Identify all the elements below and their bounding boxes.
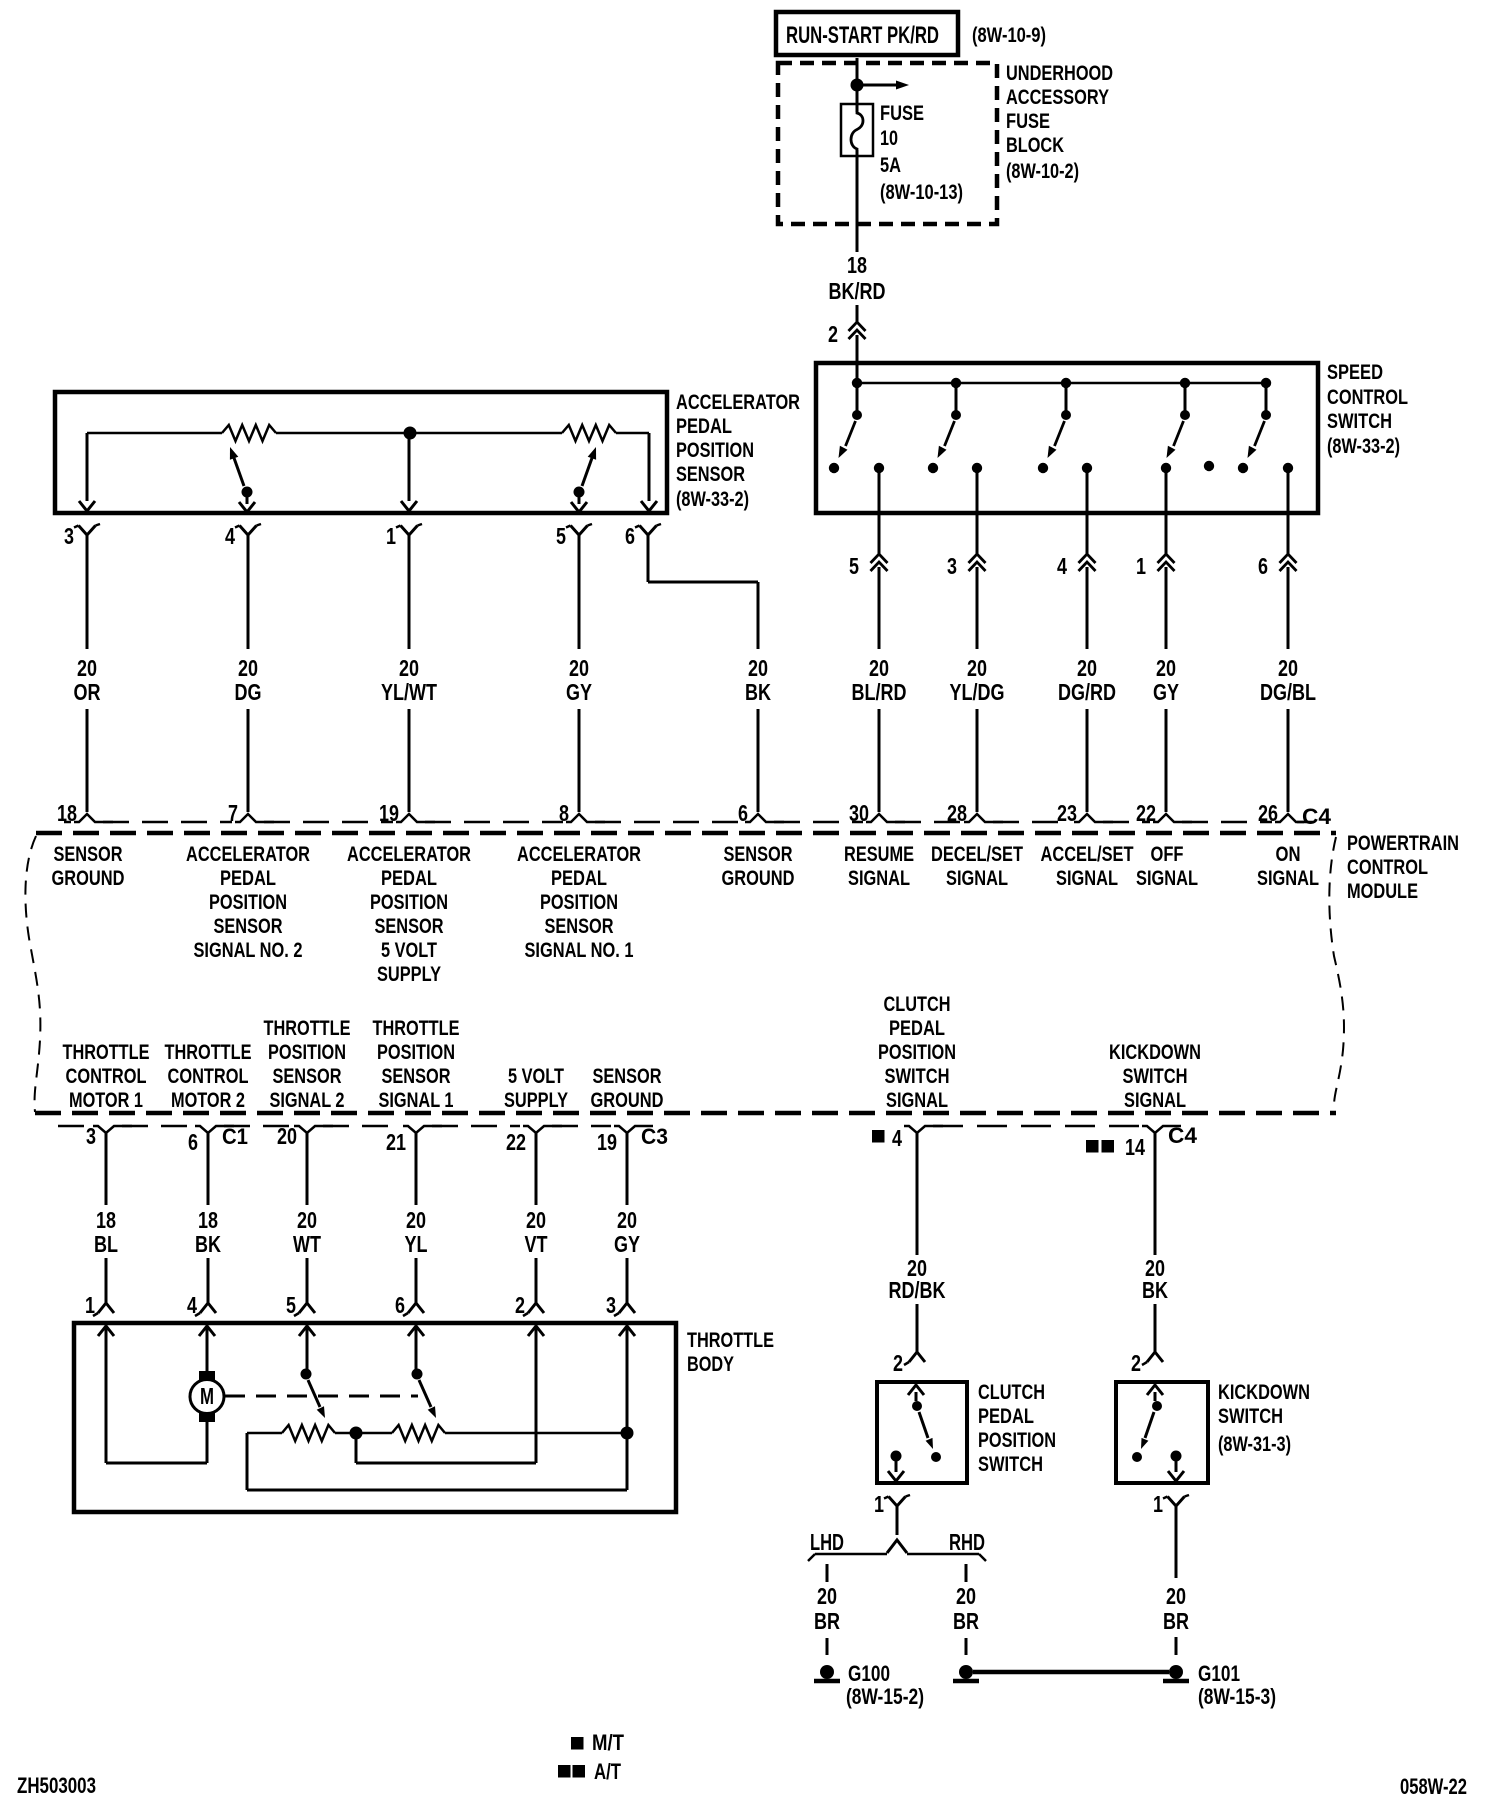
svg-text:6: 6 — [188, 1129, 198, 1155]
svg-text:THROTTLE: THROTTLE — [373, 1017, 460, 1040]
speed control switch pole 3 — [1038, 383, 1092, 473]
svg-text:2: 2 — [1131, 1350, 1141, 1376]
svg-text:PEDAL: PEDAL — [889, 1017, 945, 1040]
svg-text:1: 1 — [85, 1292, 95, 1318]
svg-text:C3: C3 — [641, 1124, 668, 1149]
svg-text:SENSOR: SENSOR — [545, 915, 614, 938]
pcm pin 3 — [86, 1123, 132, 1149]
wire — [206, 1421, 209, 1463]
wire — [1165, 567, 1168, 649]
svg-text:2: 2 — [828, 321, 838, 347]
wire — [1287, 468, 1290, 554]
svg-text:POWERTRAIN: POWERTRAIN — [1347, 832, 1459, 855]
clutch switch pin 1 — [874, 1491, 910, 1517]
pcm signal label 5 VOLT SUPPLY — [504, 1065, 568, 1112]
wire — [856, 335, 859, 385]
ground G100 — [814, 1665, 840, 1681]
node junction — [852, 378, 862, 388]
svg-text:CONTROL: CONTROL — [66, 1065, 147, 1088]
svg-text:ACCELERATOR: ACCELERATOR — [676, 391, 800, 414]
svg-text:18: 18 — [198, 1207, 218, 1233]
throttle body box — [74, 1323, 676, 1512]
speed control switch pole 4 — [1161, 383, 1214, 473]
svg-text:SIGNAL: SIGNAL — [1124, 1089, 1186, 1112]
svg-text:SWITCH: SWITCH — [978, 1453, 1043, 1476]
svg-text:(8W-33-2): (8W-33-2) — [1327, 435, 1400, 458]
pcm signal label RESUME SIGNAL — [844, 843, 914, 890]
svg-text:SUPPLY: SUPPLY — [377, 963, 441, 986]
wire — [1287, 567, 1290, 649]
svg-text:7: 7 — [228, 800, 238, 826]
label FUSE 10 5A (8W-10-13) — [880, 102, 963, 204]
speed control switch pole 1 — [829, 383, 884, 473]
svg-text:BL: BL — [94, 1231, 118, 1257]
wire — [826, 1638, 829, 1655]
throttle body pin 6 — [395, 1292, 424, 1318]
wire — [965, 1638, 968, 1655]
svg-text:3: 3 — [947, 553, 957, 579]
wire — [976, 567, 979, 649]
wire — [856, 305, 859, 322]
svg-text:4: 4 — [225, 523, 235, 549]
svg-text:4: 4 — [187, 1292, 197, 1318]
label SPEED CONTROL SWITCH (8W-33-2) — [1327, 361, 1408, 458]
pcm pin 22 — [1136, 800, 1192, 826]
svg-text:MOTOR 1: MOTOR 1 — [69, 1089, 143, 1112]
wire — [408, 709, 411, 812]
wire — [1086, 468, 1089, 554]
svg-text:20: 20 — [526, 1207, 546, 1233]
label KICKDOWN SWITCH (8W-31-3) — [1218, 1381, 1310, 1456]
pcm signal label THROTTLE POSITION SENSOR SIGNAL 2 — [264, 1017, 351, 1112]
svg-text:DG/RD: DG/RD — [1058, 679, 1116, 705]
svg-text:THROTTLE: THROTTLE — [63, 1041, 150, 1064]
wire — [415, 1132, 418, 1205]
svg-text:22: 22 — [1136, 800, 1156, 826]
wire — [916, 1304, 919, 1352]
svg-text:20: 20 — [406, 1207, 426, 1233]
wire — [1165, 709, 1168, 812]
wire label 18 BK/RD — [829, 252, 886, 304]
svg-text:PEDAL: PEDAL — [551, 867, 607, 890]
wire — [206, 1326, 209, 1372]
svg-text:SUPPLY: SUPPLY — [504, 1089, 568, 1112]
svg-text:26: 26 — [1258, 800, 1278, 826]
resistor R2 — [562, 425, 616, 441]
connector label C1 — [222, 1124, 248, 1149]
svg-text:ZH503003: ZH503003 — [17, 1773, 96, 1798]
wire label 20 BK — [1142, 1255, 1168, 1303]
throttle body pin 5 — [286, 1292, 315, 1318]
connector pin 3 — [947, 553, 986, 579]
wire entry arrow — [408, 1326, 424, 1336]
wire — [106, 1326, 207, 1463]
svg-text:ACCELERATOR: ACCELERATOR — [186, 843, 310, 866]
wire label 20 GY — [614, 1207, 640, 1257]
accelerator pedal position sensor box — [55, 392, 667, 513]
node junction — [1061, 378, 1071, 388]
svg-text:UNDERHOOD: UNDERHOOD — [1006, 62, 1113, 85]
svg-text:(8W-15-3): (8W-15-3) — [1198, 1684, 1276, 1709]
wire — [976, 468, 979, 554]
connector label C3 — [641, 1124, 668, 1149]
svg-text:BL/RD: BL/RD — [852, 679, 907, 705]
pcm signal label THROTTLE CONTROL MOTOR 1 — [63, 1041, 150, 1112]
pcm signal label THROTTLE CONTROL MOTOR 2 — [165, 1041, 252, 1112]
pcm signal label APP SENSOR 5 VOLT SUPPLY — [347, 843, 471, 986]
svg-text:20: 20 — [277, 1123, 297, 1149]
svg-text:28: 28 — [947, 800, 967, 826]
switch bus wire — [857, 382, 1266, 385]
svg-text:C4: C4 — [1302, 804, 1332, 829]
svg-text:SIGNAL NO. 1: SIGNAL NO. 1 — [525, 939, 634, 962]
svg-text:6: 6 — [625, 523, 635, 549]
power feed RUN-START PK/RD — [776, 12, 958, 55]
throttle position wiper W1 — [301, 1369, 326, 1419]
pcm C4 lower connector line — [933, 1125, 1139, 1128]
svg-text:C1: C1 — [222, 1124, 248, 1149]
sensor pin 5 — [556, 523, 592, 549]
label POWERTRAIN CONTROL MODULE — [1347, 832, 1459, 903]
kickdown switch pin 1 — [1153, 1491, 1189, 1517]
wire label 20 DG — [235, 655, 262, 705]
svg-text:6: 6 — [1258, 553, 1268, 579]
wire — [247, 535, 250, 649]
wire arrow to other circuits — [857, 81, 909, 90]
svg-text:BR: BR — [814, 1608, 840, 1634]
resistor R3 — [282, 1425, 335, 1441]
powertrain control module boundary top — [36, 831, 1336, 836]
LHD/RHD branch split — [808, 1540, 986, 1561]
svg-text:22: 22 — [506, 1129, 526, 1155]
connector label C4 — [1302, 804, 1332, 829]
wire — [626, 1132, 629, 1205]
svg-text:SWITCH: SWITCH — [1123, 1065, 1188, 1088]
wire — [1175, 1506, 1178, 1578]
pcm signal label ACCEL/SET SIGNAL — [1041, 843, 1134, 890]
clutch switch contacts — [888, 1385, 941, 1481]
pcm signal label CLUTCH PEDAL POSITION SWITCH SIGNAL — [878, 993, 956, 1112]
svg-text:PEDAL: PEDAL — [978, 1405, 1034, 1428]
sensor internal bus wire — [87, 432, 649, 435]
svg-text:18: 18 — [96, 1207, 116, 1233]
wire — [578, 709, 581, 812]
wire — [247, 709, 250, 812]
in-line connector 2 — [828, 321, 866, 347]
wire — [856, 150, 859, 252]
throttle position wiper W2 — [412, 1369, 437, 1419]
wire entry arrow — [528, 1326, 544, 1336]
wire — [86, 709, 89, 812]
svg-text:YL: YL — [405, 1231, 428, 1257]
svg-text:THROTTLE: THROTTLE — [165, 1041, 252, 1064]
pcm pin 18 — [57, 800, 113, 826]
svg-text:G101: G101 — [1198, 1661, 1240, 1686]
svg-text:20: 20 — [967, 655, 987, 681]
svg-text:18: 18 — [847, 252, 867, 278]
wire — [578, 535, 581, 649]
svg-text:20: 20 — [569, 655, 589, 681]
svg-text:20: 20 — [869, 655, 889, 681]
svg-text:WT: WT — [293, 1231, 321, 1257]
node junction — [621, 1427, 634, 1440]
svg-text:5 VOLT: 5 VOLT — [508, 1065, 564, 1088]
svg-text:5: 5 — [286, 1292, 296, 1318]
pcm signal label APP SENSOR SIGNAL NO. 1 — [517, 843, 641, 962]
svg-text:1: 1 — [386, 523, 396, 549]
svg-text:POSITION: POSITION — [370, 891, 448, 914]
pcm pin 7 — [228, 800, 274, 826]
svg-text:SENSOR: SENSOR — [273, 1065, 342, 1088]
svg-text:(8W-31-3): (8W-31-3) — [1218, 1433, 1291, 1456]
svg-text:20: 20 — [399, 655, 419, 681]
pcm pin 4 (M/T) — [872, 1125, 943, 1151]
wire pin6 leg — [641, 433, 657, 511]
label (8W-10-9) — [972, 24, 1046, 47]
svg-text:20: 20 — [1156, 655, 1176, 681]
wire label 20 BR — [1163, 1583, 1189, 1634]
svg-text:2: 2 — [515, 1292, 525, 1318]
clutch switch pin 2 — [893, 1350, 925, 1376]
svg-text:SENSOR: SENSOR — [593, 1065, 662, 1088]
svg-text:SIGNAL 2: SIGNAL 2 — [270, 1089, 345, 1112]
wire label 20 GY — [566, 655, 592, 705]
clutch pedal position switch box — [877, 1382, 967, 1483]
svg-text:20: 20 — [238, 655, 258, 681]
svg-text:GY: GY — [566, 679, 592, 705]
wire — [1086, 709, 1089, 812]
svg-text:SIGNAL: SIGNAL — [1136, 867, 1198, 890]
svg-text:BLOCK: BLOCK — [1006, 134, 1064, 157]
node junction — [1180, 378, 1190, 388]
label LHD — [810, 1529, 844, 1555]
wire — [1175, 1637, 1178, 1655]
svg-text:SIGNAL NO. 2: SIGNAL NO. 2 — [194, 939, 303, 962]
pcm pin 30 — [849, 800, 905, 826]
svg-text:5 VOLT: 5 VOLT — [381, 939, 437, 962]
pcm signal label SENSOR GROUND — [52, 843, 125, 890]
throttle motor M — [190, 1371, 224, 1422]
svg-text:4: 4 — [892, 1125, 902, 1151]
svg-text:G100: G100 — [848, 1661, 890, 1686]
sensor pin 3 — [64, 523, 100, 549]
svg-text:6: 6 — [738, 800, 748, 826]
pcm pin 19 — [379, 800, 435, 826]
svg-text:23: 23 — [1057, 800, 1077, 826]
svg-text:BR: BR — [1163, 1608, 1189, 1634]
svg-text:POSITION: POSITION — [978, 1429, 1056, 1452]
wire — [878, 468, 881, 554]
wire pin6 jog — [648, 535, 758, 649]
connector pin 5 — [849, 553, 888, 579]
pcm pin 28 — [947, 800, 1003, 826]
svg-text:10: 10 — [880, 127, 898, 150]
wire label 20 DG/BL — [1260, 655, 1316, 705]
svg-text:YL/DG: YL/DG — [950, 679, 1005, 705]
pcm pin 6 — [738, 800, 784, 826]
powertrain control module boundary right — [1329, 837, 1344, 1106]
svg-text:GY: GY — [1153, 679, 1179, 705]
svg-text:SENSOR: SENSOR — [724, 843, 793, 866]
svg-text:SENSOR: SENSOR — [382, 1065, 451, 1088]
pcm signal label ON SIGNAL — [1257, 843, 1319, 890]
node junction — [404, 427, 417, 440]
svg-text:SENSOR: SENSOR — [375, 915, 444, 938]
sheet id 058W-22 — [1400, 1774, 1467, 1799]
svg-text:RUN-START PK/RD: RUN-START PK/RD — [786, 22, 939, 49]
svg-text:SWITCH: SWITCH — [885, 1065, 950, 1088]
sensor pin 4 — [225, 523, 261, 549]
wire label 18 BK — [195, 1207, 221, 1257]
label RHD — [949, 1529, 985, 1555]
svg-text:MODULE: MODULE — [1347, 880, 1418, 903]
pcm signal label SENSOR GROUND — [722, 843, 795, 890]
svg-text:3: 3 — [606, 1292, 616, 1318]
svg-text:SENSOR: SENSOR — [676, 463, 745, 486]
svg-text:RESUME: RESUME — [844, 843, 914, 866]
svg-text:VT: VT — [525, 1231, 548, 1257]
svg-text:SIGNAL: SIGNAL — [946, 867, 1008, 890]
svg-text:ON: ON — [1276, 843, 1301, 866]
svg-text:5: 5 — [556, 523, 566, 549]
svg-text:POSITION: POSITION — [268, 1041, 346, 1064]
svg-text:THROTTLE: THROTTLE — [687, 1329, 774, 1352]
wire label 20 BR — [814, 1583, 840, 1634]
svg-text:CONTROL: CONTROL — [1347, 856, 1428, 879]
svg-text:20: 20 — [1278, 655, 1298, 681]
wire ground link — [973, 1670, 1169, 1675]
speed control switch pole 2 — [928, 383, 982, 473]
pcm pin 21 — [386, 1126, 442, 1155]
svg-text:GROUND: GROUND — [591, 1089, 664, 1112]
svg-text:30: 30 — [849, 800, 869, 826]
svg-text:DG: DG — [235, 679, 262, 705]
svg-text:20: 20 — [77, 655, 97, 681]
label ACCELERATOR PEDAL POSITION SENSOR (8W-33-2) — [676, 391, 800, 511]
svg-text:1: 1 — [1153, 1491, 1163, 1517]
svg-text:OFF: OFF — [1151, 843, 1184, 866]
svg-text:20: 20 — [817, 1583, 837, 1609]
wire label 20 VT — [525, 1207, 548, 1257]
wire entry arrow — [199, 1326, 215, 1336]
svg-text:BR: BR — [953, 1608, 979, 1634]
svg-text:BK: BK — [1142, 1277, 1168, 1303]
wire label 20 RD/BK — [889, 1255, 946, 1303]
wire entry arrow — [619, 1326, 635, 1336]
svg-text:20: 20 — [297, 1207, 317, 1233]
node junction — [1261, 378, 1271, 388]
label CLUTCH PEDAL POSITION SWITCH — [978, 1381, 1056, 1476]
svg-text:1: 1 — [1136, 553, 1146, 579]
wiper W2 — [571, 447, 596, 512]
svg-text:PEDAL: PEDAL — [381, 867, 437, 890]
kickdown switch contacts — [1132, 1385, 1184, 1481]
wire — [976, 709, 979, 812]
pcm pin 23 — [1057, 800, 1113, 826]
speed control switch box — [816, 363, 1318, 513]
wire label 20 GY — [1153, 655, 1179, 705]
wire — [105, 1132, 108, 1205]
svg-text:BK: BK — [195, 1231, 221, 1257]
svg-text:(8W-10-9): (8W-10-9) — [972, 24, 1046, 47]
label UNDERHOOD ACCESSORY FUSE BLOCK (8W-10-2) — [1006, 62, 1113, 183]
svg-text:POSITION: POSITION — [377, 1041, 455, 1064]
svg-text:4: 4 — [1057, 553, 1067, 579]
svg-text:ACCESSORY: ACCESSORY — [1006, 86, 1109, 109]
connector pin 1 — [1136, 553, 1175, 579]
wire — [1165, 468, 1168, 554]
svg-text:5: 5 — [849, 553, 859, 579]
svg-text:MOTOR 2: MOTOR 2 — [171, 1089, 245, 1112]
pcm pin 8 — [559, 800, 605, 826]
wire label 20 OR — [74, 655, 101, 705]
wiper W1 — [230, 447, 255, 512]
connector pin 6 — [1258, 553, 1297, 579]
wire — [1154, 1132, 1157, 1255]
svg-text:SIGNAL: SIGNAL — [848, 867, 910, 890]
svg-text:M: M — [200, 1383, 214, 1409]
svg-text:BK: BK — [745, 679, 771, 705]
wire — [757, 709, 760, 812]
svg-text:SWITCH: SWITCH — [1327, 410, 1392, 433]
tps resistor line — [247, 1432, 627, 1435]
sensor pin 6 — [625, 523, 661, 549]
svg-text:PEDAL: PEDAL — [220, 867, 276, 890]
wire — [86, 535, 89, 649]
svg-text:M/T: M/T — [592, 1730, 624, 1755]
svg-text:CLUTCH: CLUTCH — [884, 993, 951, 1016]
sensor pin 1 — [386, 523, 422, 549]
svg-text:SIGNAL: SIGNAL — [1257, 867, 1319, 890]
svg-text:GROUND: GROUND — [722, 867, 795, 890]
wire pin1 leg — [401, 433, 417, 511]
wire entry arrow — [98, 1326, 114, 1336]
svg-text:18: 18 — [57, 800, 77, 826]
svg-text:GROUND: GROUND — [52, 867, 125, 890]
svg-text:BODY: BODY — [687, 1353, 734, 1376]
svg-text:CONTROL: CONTROL — [1327, 386, 1408, 409]
wire label 20 YL/WT — [381, 655, 437, 705]
svg-text:6: 6 — [395, 1292, 405, 1318]
pcm pin 26 — [1258, 800, 1314, 826]
wire — [105, 1258, 108, 1303]
svg-text:KICKDOWN: KICKDOWN — [1218, 1381, 1310, 1404]
svg-text:ACCEL/SET: ACCEL/SET — [1041, 843, 1134, 866]
svg-text:SIGNAL: SIGNAL — [1056, 867, 1118, 890]
connector pin 4 — [1057, 553, 1096, 579]
pcm pin 19 — [597, 1126, 653, 1155]
svg-text:20: 20 — [1166, 1583, 1186, 1609]
svg-text:POSITION: POSITION — [540, 891, 618, 914]
svg-text:20: 20 — [617, 1207, 637, 1233]
pcm signal label APP SENSOR SIGNAL NO. 2 — [186, 843, 310, 962]
label G101 (8W-15-3) — [1198, 1661, 1276, 1709]
wire label 20 WT — [293, 1207, 321, 1257]
wire — [306, 1132, 309, 1205]
wire 5 volt feed — [356, 1326, 536, 1463]
svg-text:SENSOR: SENSOR — [214, 915, 283, 938]
svg-text:SENSOR: SENSOR — [54, 843, 123, 866]
svg-text:OR: OR — [74, 679, 101, 705]
label THROTTLE BODY — [687, 1329, 774, 1376]
svg-text:FUSE: FUSE — [1006, 110, 1050, 133]
underhood accessory fuse block box — [778, 63, 997, 224]
svg-text:SIGNAL 1: SIGNAL 1 — [379, 1089, 454, 1112]
wire — [306, 1258, 309, 1303]
throttle body pin 2 — [515, 1292, 544, 1318]
wire — [965, 1564, 968, 1582]
svg-text:ACCELERATOR: ACCELERATOR — [517, 843, 641, 866]
